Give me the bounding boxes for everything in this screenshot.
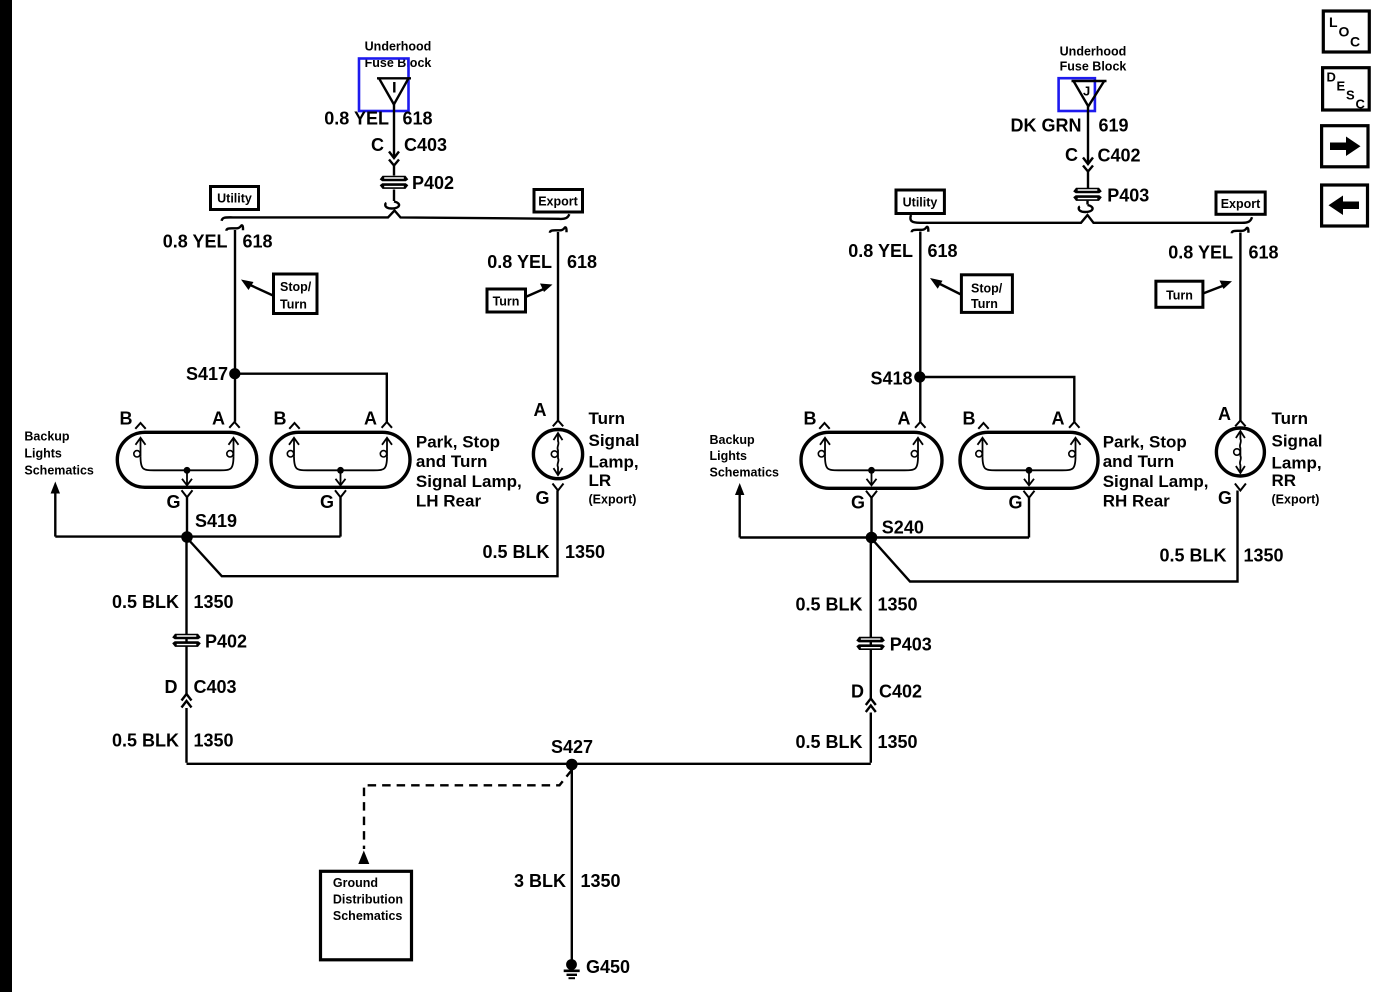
wire S240 diagonal to lamp RR G	[872, 491, 1238, 582]
svg-text:(Export): (Export)	[1272, 493, 1320, 507]
wire backup-arrow to S419 to lamp E2 G	[55, 535, 340, 537]
svg-text:D: D	[165, 677, 178, 697]
svg-text:J: J	[1083, 84, 1090, 99]
wire export drop to lamp RR	[1232, 228, 1249, 421]
svg-text:S: S	[1346, 88, 1355, 103]
wire C402 to P403	[1087, 172, 1089, 188]
svg-text:A: A	[364, 409, 377, 429]
svg-text:0.5 BLK: 0.5 BLK	[482, 542, 549, 562]
label 0.8 YEL 618	[324, 109, 432, 129]
label 0.5 BLK 1350 (LR leg)	[482, 542, 605, 562]
svg-text:0.8 YEL: 0.8 YEL	[1168, 243, 1233, 263]
svg-text:D: D	[851, 682, 864, 702]
svg-text:A: A	[534, 400, 547, 420]
svg-text:1350: 1350	[194, 731, 234, 751]
label 0.5 BLK 1350	[112, 731, 234, 751]
svg-text:A: A	[212, 409, 225, 429]
Export tag (left)	[534, 190, 583, 213]
bus rail left	[222, 211, 570, 221]
svg-text:A: A	[1052, 409, 1065, 429]
svg-text:Signal: Signal	[1272, 432, 1323, 451]
svg-text:Export: Export	[1221, 197, 1261, 211]
svg-text:G: G	[1218, 488, 1232, 508]
label 0.5 BLK 1350	[112, 592, 234, 612]
svg-text:Lamp,: Lamp,	[1272, 454, 1322, 473]
wire S240 down to P403	[870, 538, 872, 763]
svg-text:B: B	[963, 409, 976, 429]
wire utility drop to S418 and lamp E3 pin A	[912, 227, 929, 422]
svg-text:Underhood: Underhood	[1060, 45, 1127, 59]
svg-text:C403: C403	[194, 677, 237, 697]
label 0.8 YEL 618	[848, 241, 957, 261]
back arrow nav box	[1322, 185, 1368, 226]
svg-text:Turn: Turn	[1166, 289, 1193, 303]
svg-text:Stop/: Stop/	[971, 282, 1003, 296]
svg-text:C: C	[1065, 145, 1078, 165]
Stop/Turn tag (right)	[930, 275, 1012, 313]
svg-text:RR: RR	[1272, 471, 1297, 490]
svg-text:Backup: Backup	[710, 433, 756, 447]
svg-text:0.8 YEL: 0.8 YEL	[487, 252, 552, 272]
svg-text:G: G	[166, 492, 180, 512]
svg-text:Turn: Turn	[1272, 409, 1309, 428]
svg-text:618: 618	[567, 252, 597, 272]
svg-text:DK GRN: DK GRN	[1011, 116, 1082, 136]
svg-text:P402: P402	[412, 173, 454, 193]
wire export drop to lamp LR	[550, 227, 567, 420]
svg-text:S419: S419	[195, 511, 237, 531]
svg-text:B: B	[804, 409, 817, 429]
connector C403 pin C	[371, 135, 447, 166]
wire lamp E2 G down	[339, 497, 341, 536]
wire P403 to bus	[1079, 201, 1093, 212]
svg-text:P402: P402	[205, 632, 247, 652]
svg-text:and Turn: and Turn	[416, 452, 487, 471]
svg-text:C: C	[371, 135, 384, 155]
node S240	[866, 518, 924, 544]
svg-text:618: 618	[928, 241, 958, 261]
svg-text:G: G	[320, 492, 334, 512]
wire bottom run to S427 and right half	[187, 763, 871, 765]
svg-text:0.5 BLK: 0.5 BLK	[795, 732, 862, 752]
next arrow nav box	[1322, 126, 1368, 167]
svg-text:G: G	[535, 488, 549, 508]
wire S419 down to P402	[185, 537, 187, 763]
label Park, Stop and Turn Signal Lamp, LH Rear	[416, 433, 522, 511]
svg-text:and Turn: and Turn	[1103, 452, 1174, 471]
svg-text:A: A	[1218, 404, 1231, 424]
label 0.8 YEL 618	[487, 252, 597, 272]
svg-text:L: L	[1329, 14, 1338, 30]
svg-text:Signal: Signal	[589, 431, 640, 450]
Backup Lights Schematics pointer (right)	[710, 433, 780, 538]
grommet P403 (lower)	[856, 635, 931, 655]
svg-text:(Export): (Export)	[589, 493, 637, 507]
lamp E4 Park/Stop/Turn RH rear	[960, 409, 1098, 513]
wire fuse I to C403	[393, 104, 395, 158]
lamp E2 Park/Stop/Turn LH rear	[271, 409, 410, 513]
svg-text:Lights: Lights	[24, 447, 62, 461]
connector C402 pin D	[851, 682, 922, 713]
lamp E3 Park/Stop/Turn RH rear	[801, 409, 942, 513]
svg-text:Utility: Utility	[903, 196, 938, 210]
Ground Distribution Schematics box	[321, 871, 412, 960]
svg-text:0.5 BLK: 0.5 BLK	[795, 595, 862, 615]
svg-text:A: A	[898, 409, 911, 429]
svg-text:Fuse Block: Fuse Block	[1060, 60, 1127, 74]
svg-text:Ground: Ground	[333, 876, 378, 890]
svg-text:Turn: Turn	[493, 295, 520, 309]
wire S418 branch to lamp E4 pin A	[920, 377, 1075, 422]
label 0.5 BLK 1350 (RR leg)	[1159, 546, 1283, 566]
label DK GRN 619	[1011, 116, 1129, 136]
svg-text:C: C	[1350, 34, 1360, 50]
node S427	[551, 737, 593, 770]
lamp Turn Signal RR	[1216, 404, 1264, 508]
svg-text:0.8 YEL: 0.8 YEL	[848, 241, 913, 261]
svg-text:Signal Lamp,: Signal Lamp,	[1103, 472, 1209, 491]
label 0.8 YEL 618	[1168, 243, 1278, 263]
label 0.8 YEL 618	[163, 232, 273, 252]
svg-text:3 BLK: 3 BLK	[514, 871, 566, 891]
svg-text:1350: 1350	[878, 595, 918, 615]
Stop/Turn tag (left)	[241, 274, 317, 314]
label Turn Signal Lamp, RR (Export)	[1272, 409, 1323, 507]
wire P402 to bus	[385, 190, 399, 209]
Export tag (right)	[1216, 192, 1265, 214]
svg-text:Backup: Backup	[24, 430, 70, 444]
svg-text:Lights: Lights	[710, 449, 748, 463]
wire S417 branch to lamp E2 pin A	[235, 374, 387, 422]
node S418	[870, 369, 925, 389]
svg-text:Park, Stop: Park, Stop	[1103, 433, 1187, 452]
wire fuse J to C402	[1087, 106, 1089, 164]
svg-text:S240: S240	[882, 518, 924, 538]
svg-text:Turn: Turn	[589, 409, 626, 428]
svg-text:Turn: Turn	[280, 298, 307, 312]
svg-text:0.5 BLK: 0.5 BLK	[112, 592, 179, 612]
svg-text:0.8 YEL: 0.8 YEL	[163, 232, 228, 252]
svg-text:RH Rear: RH Rear	[1103, 492, 1170, 511]
Utility tag (left)	[211, 187, 259, 210]
svg-text:1350: 1350	[581, 871, 621, 891]
fuse block I label	[365, 40, 432, 71]
label 3 BLK 1350	[514, 871, 621, 891]
svg-text:Export: Export	[538, 195, 578, 209]
wire C403 to P402	[393, 166, 395, 176]
fuse block J symbol	[1059, 78, 1107, 111]
svg-text:S418: S418	[870, 369, 912, 389]
grommet P402 (lower)	[172, 632, 247, 652]
svg-text:E: E	[1337, 79, 1346, 94]
LOC nav box	[1323, 11, 1369, 52]
lamp E1 Park/Stop/Turn LH rear	[117, 409, 256, 513]
connector C403 pin D	[165, 677, 237, 708]
svg-text:0.5 BLK: 0.5 BLK	[1159, 546, 1226, 566]
svg-text:Schematics: Schematics	[333, 909, 403, 923]
Turn tag (right)	[1156, 281, 1232, 308]
svg-text:P403: P403	[890, 635, 932, 655]
wire utility drop to S417 and lamp E1 pin A	[226, 225, 243, 421]
connector C402 pin C	[1065, 145, 1141, 172]
svg-text:618: 618	[1249, 243, 1279, 263]
svg-text:618: 618	[403, 109, 433, 129]
svg-text:C402: C402	[879, 682, 922, 702]
svg-text:S417: S417	[186, 364, 228, 384]
svg-text:0.5 BLK: 0.5 BLK	[112, 731, 179, 751]
wire S427 to ground	[571, 765, 573, 960]
svg-text:Schematics: Schematics	[24, 464, 94, 478]
wire S419 diagonal to lamp LR G	[187, 491, 558, 577]
svg-text:B: B	[274, 409, 287, 429]
svg-text:1350: 1350	[1244, 546, 1284, 566]
fuse block J label	[1060, 45, 1127, 74]
Backup Lights Schematics pointer (left)	[24, 430, 94, 537]
svg-text:0.8 YEL: 0.8 YEL	[324, 109, 389, 129]
label Turn Signal Lamp, LR (Export)	[589, 409, 640, 507]
svg-text:Underhood: Underhood	[365, 40, 432, 54]
label 0.5 BLK 1350	[795, 595, 917, 615]
wire backup-arrow to S240 to lamp E4 G	[740, 536, 1029, 538]
svg-text:Distribution: Distribution	[333, 893, 403, 907]
svg-text:Stop/: Stop/	[280, 280, 312, 294]
svg-text:G450: G450	[586, 957, 630, 977]
grommet P403 (upper)	[1073, 186, 1149, 206]
svg-text:619: 619	[1099, 116, 1129, 136]
svg-text:P403: P403	[1107, 186, 1149, 206]
DESC nav box	[1323, 68, 1370, 112]
svg-text:S427: S427	[551, 737, 593, 757]
svg-text:Park, Stop: Park, Stop	[416, 433, 500, 452]
svg-text:1350: 1350	[565, 542, 605, 562]
grommet P402 (upper)	[380, 173, 454, 193]
fuse block I symbol	[359, 59, 411, 112]
lamp Turn Signal LR	[533, 400, 582, 508]
label Park, Stop and Turn Signal Lamp, RH Rear	[1103, 433, 1209, 511]
svg-text:Utility: Utility	[217, 192, 252, 206]
svg-text:618: 618	[243, 232, 273, 252]
svg-text:G: G	[1008, 493, 1022, 513]
svg-text:D: D	[1327, 70, 1336, 85]
svg-text:LR: LR	[589, 471, 612, 490]
node S419	[181, 511, 237, 543]
svg-text:1350: 1350	[194, 592, 234, 612]
svg-text:1350: 1350	[878, 732, 918, 752]
svg-text:G: G	[851, 493, 865, 513]
svg-text:LH Rear: LH Rear	[416, 492, 482, 511]
svg-text:Schematics: Schematics	[710, 466, 780, 480]
label 0.5 BLK 1350	[795, 732, 917, 752]
svg-text:Lamp,: Lamp,	[589, 453, 639, 472]
wire lamp E3 G to S240	[870, 498, 872, 538]
Turn tag (left)	[487, 284, 553, 313]
svg-text:O: O	[1339, 24, 1350, 40]
dashed pointer to Ground Distribution Schematics	[358, 770, 572, 864]
svg-text:Turn: Turn	[971, 297, 998, 311]
svg-text:Signal Lamp,: Signal Lamp,	[416, 472, 522, 491]
svg-text:C402: C402	[1098, 146, 1141, 166]
ground G450	[564, 957, 630, 978]
svg-text:C: C	[1356, 97, 1366, 112]
svg-text:C403: C403	[404, 135, 447, 155]
Utility tag (right)	[896, 190, 944, 214]
wire lamp E1 G to S419	[186, 497, 188, 537]
bus rail right	[910, 215, 1252, 223]
node S417	[186, 364, 240, 384]
wire lamp E4 G down	[1028, 498, 1030, 538]
svg-text:B: B	[120, 409, 133, 429]
